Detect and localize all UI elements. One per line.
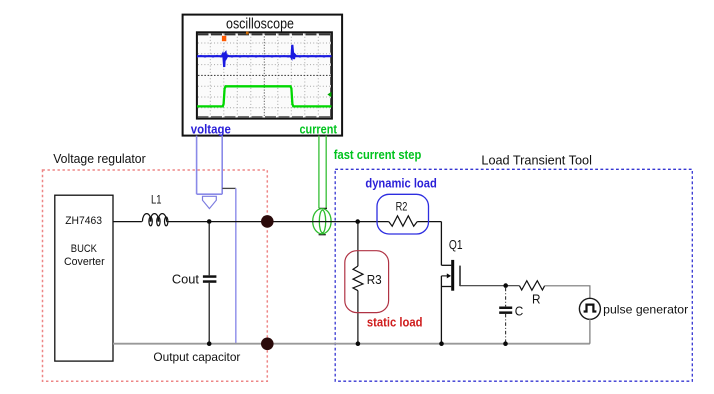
bottom border tick band: [198, 116, 332, 118]
node: Q1 source on rail: [439, 341, 444, 346]
ZH7463 buck converter box: [55, 195, 113, 361]
node: R3 top junction: [355, 219, 360, 224]
drain wire: [440, 222, 442, 266]
voltage probe tip: [203, 196, 217, 208]
svg-text:Q1: Q1: [449, 238, 463, 252]
wire: L1 to R2: [167, 221, 389, 223]
green right edge marker: [327, 92, 331, 97]
gate electrode: [459, 266, 461, 287]
svg-text:R3: R3: [367, 273, 382, 287]
svg-text:Coverter: Coverter: [64, 256, 105, 268]
blue voltage trace: [197, 45, 332, 67]
node: gate RC junction: [503, 283, 508, 288]
svg-text:Load Transient Tool: Load Transient Tool: [481, 153, 592, 167]
svg-text:BUCK: BUCK: [71, 243, 98, 255]
svg-text:Voltage regulator: Voltage regulator: [53, 151, 146, 166]
node: gnd big dot: [261, 338, 274, 351]
svg-text:R2: R2: [396, 199, 408, 213]
current probe leads (green): [319, 136, 326, 209]
channel bar: [451, 260, 454, 291]
svg-text:current: current: [300, 122, 338, 136]
resistor R: [520, 281, 545, 291]
orange tick top border: [246, 32, 249, 35]
node: probe tap junction: [207, 219, 212, 224]
body stub with arrow: [441, 275, 447, 277]
resistor R3: [353, 266, 363, 291]
pulse generator symbol: [584, 305, 597, 312]
grid center vertical dashed: [263, 34, 265, 118]
svg-text:C: C: [515, 304, 524, 318]
svg-text:ZH7463: ZH7463: [65, 215, 102, 227]
pulse generator circle: [579, 298, 600, 319]
svg-text:oscilloscope: oscilloscope: [226, 16, 294, 32]
transistor Q1: [441, 222, 460, 344]
svg-text:pulse generator: pulse generator: [603, 302, 688, 316]
R3 red rounded box: [345, 251, 389, 313]
voltage probe leads (blue): [197, 136, 223, 195]
svg-text:Cout: Cout: [172, 272, 200, 286]
node: Cout bottom: [207, 341, 212, 346]
svg-text:L1: L1: [151, 195, 162, 207]
top border tick band: [198, 33, 332, 35]
node: C bottom: [503, 341, 508, 346]
resistor R2: [389, 216, 417, 226]
inductor L1: [142, 214, 168, 226]
load transient tool dashed box: [335, 169, 692, 381]
node: vout big dot: [261, 215, 274, 228]
grid vertical dotted lines: [210, 34, 318, 118]
svg-text:voltage: voltage: [191, 122, 231, 136]
svg-text:fast current step: fast current step: [334, 148, 422, 162]
probe ground connector: [222, 187, 236, 189]
wire: R3 branch: [357, 222, 359, 266]
capacitor C dashed bottom: [505, 314, 507, 342]
svg-text:static load: static load: [367, 316, 423, 330]
capacitor C dashed top: [505, 288, 507, 307]
wire: R to pulse generator: [545, 286, 590, 299]
wire: R2 to drain corner: [417, 221, 441, 223]
ground rail (grey): [113, 343, 590, 345]
R2 blue rounded box: [377, 194, 429, 234]
grid center horizontal dashed: [198, 74, 331, 76]
svg-text:dynamic load: dynamic load: [365, 177, 436, 191]
current probe bottom tick: [319, 234, 326, 236]
capacitor Cout wire top: [208, 222, 210, 276]
wire: R3 to rail: [357, 291, 359, 344]
right border tick band: [330, 34, 332, 118]
oscilloscope outer box: [183, 15, 343, 136]
capacitor C plates: [499, 307, 512, 310]
current probe outer coil: [313, 209, 331, 234]
voltage regulator dashed box: [43, 170, 268, 381]
grid horizontal dotted lines: [198, 43, 331, 108]
capacitor Cout plates: [203, 275, 217, 278]
svg-text:R: R: [532, 293, 541, 307]
node: R3 bottom: [356, 341, 361, 346]
svg-text:Output capacitor: Output capacitor: [153, 350, 240, 364]
green current trace: [197, 86, 332, 106]
blue voltage trace noise fuzz: [197, 55, 332, 57]
oscilloscope screen: [197, 32, 332, 119]
source wire down: [440, 276, 442, 344]
gate wire: [460, 285, 520, 287]
trigger flag orange: [222, 36, 226, 41]
source stub: [441, 286, 451, 288]
wire: box to L1: [113, 221, 142, 223]
wire: pulse generator to rail: [589, 319, 591, 344]
probe ground lead: [235, 188, 237, 343]
capacitor Cout wire bottom: [208, 283, 210, 344]
current probe top tick: [319, 207, 327, 209]
current probe inner coil: [319, 210, 325, 233]
